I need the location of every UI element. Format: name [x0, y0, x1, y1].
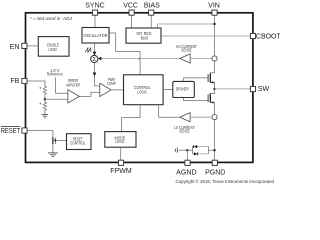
wire source to ground	[52, 144, 54, 153]
node VIN junction	[213, 23, 215, 25]
wire HS sense to VIN node circle	[190, 58, 212, 60]
mode logic block	[105, 132, 136, 148]
pin square PGND	[212, 160, 217, 165]
svg-text:Σ: Σ	[93, 57, 97, 63]
svg-text:PGND: PGND	[205, 169, 225, 176]
wire oscillator to control logic	[109, 33, 140, 75]
wire RESET pin to transistor	[27, 130, 53, 137]
wire divider to error amp	[45, 98, 68, 100]
node LS sense circle	[212, 115, 217, 120]
LS current sense amp	[180, 113, 190, 122]
svg-text:BIAS: BIAS	[141, 36, 149, 41]
svg-text:BIAS: BIAS	[144, 2, 160, 9]
int reg bias block	[126, 28, 161, 43]
wire int reg bias to CBOOT	[161, 35, 250, 37]
svg-text:* = Not used in -ADJ: * = Not used in -ADJ	[30, 16, 73, 21]
wire BIAS to int reg bias	[150, 15, 152, 28]
ground below divider	[42, 114, 49, 118]
transistor LS FET	[210, 89, 214, 94]
sawtooth waveform symbol	[85, 48, 91, 52]
wire AGND stub left with plates	[179, 149, 188, 151]
wire gate to reset control	[56, 139, 67, 141]
svg-text:DRIVER: DRIVER	[176, 86, 189, 91]
transistor HS FET	[210, 61, 214, 74]
pin square CBOOT	[250, 33, 255, 38]
oscillator block	[82, 28, 109, 44]
wire VIN rail down to HS sense node	[214, 15, 216, 56]
pin square VIN	[212, 10, 217, 15]
arrowhead into summer	[93, 52, 97, 56]
pin square FPWM	[118, 160, 123, 165]
wire HS current sense to summer	[98, 58, 180, 60]
pin square BIAS	[149, 10, 154, 15]
diode D1 pointing left	[193, 145, 195, 148]
pin square FB	[22, 78, 27, 83]
svg-text:LOGIC: LOGIC	[137, 89, 147, 94]
svg-text:AGND: AGND	[176, 169, 196, 176]
svg-text:FPWM: FPWM	[110, 168, 132, 175]
wire SYNC to oscillator	[94, 15, 96, 27]
wire oscillator to summer	[94, 43, 96, 55]
svg-text:AMPLIFIER: AMPLIFIER	[66, 83, 81, 88]
svg-text:VIN: VIN	[208, 2, 220, 9]
pin square EN	[22, 43, 27, 48]
svg-text:COMP: COMP	[107, 81, 116, 86]
node AGND junction	[186, 149, 188, 151]
wire LS node down to PGND	[214, 120, 216, 161]
wire AGND column	[186, 150, 188, 160]
driver block	[173, 81, 195, 97]
wire FB pin to divider	[27, 81, 45, 86]
chip boundary	[26, 13, 253, 163]
wire error amp out to PWM comp	[79, 92, 100, 96]
resistor R-top	[43, 86, 46, 99]
diode D2 pointing right	[194, 152, 197, 155]
node HS sense circle	[212, 56, 217, 61]
ground below reset FET	[48, 153, 58, 157]
wire PWM comp to control logic	[111, 89, 123, 91]
wire driver to LS gate	[184, 98, 208, 101]
enable logic U-EN	[38, 37, 69, 57]
pin square AGND	[185, 160, 190, 165]
summer sigma circle	[91, 55, 98, 62]
wire driver to HS gate	[184, 78, 208, 82]
svg-text:CONTROL: CONTROL	[70, 140, 86, 145]
svg-text:FB: FB	[10, 78, 19, 85]
amp HS current sense	[180, 54, 190, 63]
wire LS sense to node circle	[190, 116, 212, 118]
arrowhead into summer right	[98, 57, 102, 60]
wire summer to PWM comp	[95, 62, 100, 86]
arrowhead down on summer output	[93, 73, 97, 77]
wire LS sense to control logic	[159, 105, 180, 118]
wire control logic to driver	[163, 89, 173, 91]
svg-text:Copyright © 2016, Texas Instru: Copyright © 2016, Texas Instruments Inco…	[176, 179, 275, 184]
pin square SW	[250, 86, 255, 91]
svg-text:LOGIC: LOGIC	[115, 139, 125, 144]
svg-text:SYNC: SYNC	[85, 2, 104, 9]
svg-text:OSCILLATOR: OSCILLATOR	[84, 33, 108, 38]
wire crossover tick	[139, 57, 141, 60]
node SW junction	[213, 88, 215, 90]
svg-text:SENSE: SENSE	[181, 48, 192, 53]
wire control logic to mode logic	[122, 105, 141, 132]
svg-text:SENSE: SENSE	[179, 129, 190, 134]
svg-text:RESET: RESET	[1, 128, 21, 135]
svg-text:VCC: VCC	[123, 2, 138, 9]
wire EN pin to enable logic	[27, 45, 38, 47]
reset control block	[67, 134, 92, 150]
wire mode logic to FPWM pin	[120, 147, 122, 160]
control logic block	[124, 75, 164, 105]
svg-text:LOGIC: LOGIC	[48, 47, 57, 52]
wire reference to error amp	[56, 77, 68, 93]
node PGND junction	[213, 149, 215, 151]
comparator PWM comp	[100, 83, 111, 96]
svg-text:CBOOT: CBOOT	[256, 34, 280, 41]
node divider junction	[44, 98, 46, 100]
pin square SYNC	[92, 10, 97, 15]
wire VCC to int reg bias	[131, 15, 133, 28]
op-amp error amplifier	[68, 90, 79, 103]
wire VIN feed to int reg bias top	[158, 24, 215, 28]
diode pair between AGND and PGND	[187, 147, 214, 154]
svg-text:Reference: Reference	[47, 72, 64, 77]
svg-text:SW: SW	[258, 86, 270, 93]
pin square VCC	[129, 10, 134, 15]
wire SW node to SW pin	[215, 88, 251, 90]
transistor reset FET	[52, 137, 54, 144]
svg-text:EN: EN	[10, 44, 20, 51]
pin square RESET	[22, 128, 27, 133]
resistor R-bottom	[43, 99, 46, 114]
